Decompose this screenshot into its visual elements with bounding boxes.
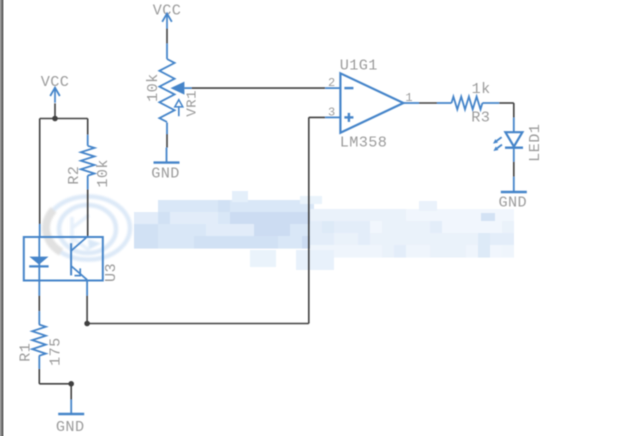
svg-text:U1G1: U1G1 bbox=[340, 57, 378, 75]
svg-text:3: 3 bbox=[328, 105, 336, 119]
svg-text:LM358: LM358 bbox=[340, 134, 388, 152]
svg-text:R3: R3 bbox=[471, 109, 490, 127]
svg-text:VR1: VR1 bbox=[185, 90, 201, 117]
svg-text:2: 2 bbox=[328, 76, 336, 90]
svg-text:175: 175 bbox=[47, 337, 65, 366]
svg-text:GND: GND bbox=[56, 418, 85, 436]
svg-text:10k: 10k bbox=[94, 159, 112, 188]
svg-text:LED1: LED1 bbox=[526, 124, 544, 162]
svg-text:1k: 1k bbox=[472, 80, 491, 98]
svg-text:10k: 10k bbox=[144, 73, 162, 102]
svg-text:R1: R1 bbox=[17, 343, 35, 362]
svg-text:U3: U3 bbox=[102, 263, 120, 282]
svg-text:GND: GND bbox=[499, 194, 528, 212]
svg-text:R2: R2 bbox=[65, 166, 83, 185]
svg-text:GND: GND bbox=[151, 165, 180, 183]
